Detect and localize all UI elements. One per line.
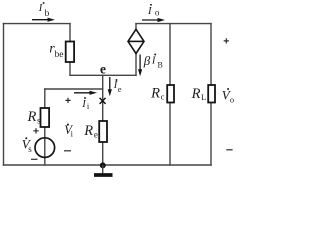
svg-text:e: e [118, 84, 122, 94]
svg-text:o: o [230, 94, 234, 104]
svg-text:e: e [94, 129, 98, 139]
svg-text:R: R [191, 86, 201, 102]
svg-text:B: B [158, 61, 163, 70]
svg-text:I: I [81, 99, 86, 110]
svg-text:L: L [201, 92, 206, 102]
svg-text:s: s [28, 144, 32, 154]
svg-text:o: o [155, 8, 160, 18]
svg-text:s: s [37, 115, 41, 125]
svg-text:I: I [38, 3, 43, 14]
svg-text:I: I [147, 6, 152, 17]
svg-text:b: b [45, 9, 50, 19]
svg-text:c: c [161, 91, 165, 101]
svg-text:β: β [143, 53, 151, 68]
svg-text:e: e [100, 61, 106, 76]
svg-text:be: be [55, 50, 64, 60]
svg-text:R: R [150, 86, 160, 102]
svg-text:I: I [151, 56, 156, 67]
svg-text:R: R [27, 109, 37, 125]
svg-text:R: R [83, 123, 93, 139]
